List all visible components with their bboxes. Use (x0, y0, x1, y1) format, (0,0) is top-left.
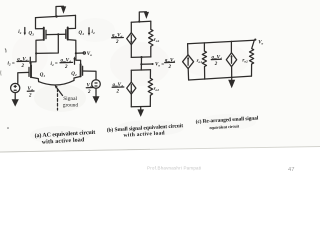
transistor Q3 (36, 18, 44, 29)
svg-text:Vo: Vo (87, 52, 92, 57)
current label i4 down-arrow right of Q4 (88, 28, 90, 34)
svg-text:i4 =: i4 = (51, 62, 58, 67)
caption (a) (34, 129, 95, 146)
node output junction (75, 52, 77, 54)
wire bottom loop top rail (131, 69, 150, 71)
svg-text:ro4: ro4 (154, 38, 160, 43)
ground (top) (139, 12, 146, 22)
transistor Q1 (31, 53, 36, 66)
caption (c) (195, 114, 259, 131)
node drain-gate tie (35, 52, 37, 54)
ground (bottom) (140, 107, 142, 110)
source Vd/2 (right) (92, 80, 101, 89)
scan page tint (0, 0, 320, 152)
wire diode-connect feedback (36, 34, 58, 53)
svg-text:i4: i4 (18, 30, 21, 35)
transistor Q2 (76, 53, 81, 65)
ground (signal ground arrow at top) (56, 6, 64, 16)
node Vo (140, 63, 142, 65)
dependent source gmVd/2 (third branch) (230, 41, 232, 52)
svg-text:ro4: ro4 (197, 59, 203, 64)
wire output tap (76, 52, 83, 54)
svg-text:2: 2 (115, 40, 119, 45)
wire mid rail (top loop bottom) (131, 56, 151, 59)
svg-text:i4: i4 (92, 30, 95, 35)
svg-text:Q1: Q1 (40, 73, 46, 78)
transistor Q4 (68, 15, 76, 28)
resistor ro4 (149, 21, 153, 57)
svg-text:Q4: Q4 (79, 31, 85, 36)
value label gmVd/2 (bottom source) (112, 83, 124, 95)
ground (right source) (95, 88, 97, 96)
node gate junction (57, 33, 59, 35)
caption (b) (107, 122, 184, 140)
svg-text:Vo =: Vo = (155, 63, 164, 68)
svg-text:2: 2 (28, 94, 32, 99)
wire bottom rail (131, 105, 150, 107)
wire top rail (131, 21, 151, 22)
resistor ro2 (148, 70, 152, 107)
svg-text:ro2: ro2 (242, 59, 248, 64)
resistor ro2 (250, 40, 255, 76)
svg-text:2: 2 (64, 65, 68, 70)
svg-text:ground: ground (63, 102, 79, 108)
svg-text:Vo: Vo (258, 40, 263, 45)
svg-text:ro2: ro2 (154, 87, 160, 92)
value label gmVd/2 (211, 55, 222, 67)
svg-text:Q2: Q2 (71, 72, 77, 77)
node top rail junction (55, 15, 57, 17)
value label gmVd/2 (top source) (111, 34, 123, 46)
svg-text:Signal: Signal (63, 96, 77, 102)
dependent source gmVd/2 (left branch) (187, 44, 189, 55)
node Vo (254, 39, 256, 41)
wire gate rail Q3-Q4 (46, 33, 66, 35)
source Vd/2 (left) (11, 83, 20, 92)
dependent source gmVd/2 (top) (130, 22, 132, 32)
resistor ro4 (202, 43, 206, 79)
svg-text:Prof.Bhavnashri Pampati: Prof.Bhavnashri Pampati (147, 166, 201, 171)
scan bottom edge (0, 147, 320, 153)
current label i = gmVd/2 (right) (51, 56, 76, 70)
svg-text:2: 2 (87, 90, 91, 95)
svg-text:i2 =: i2 = (8, 62, 15, 67)
value label gmVd/2 (equation) (164, 58, 175, 70)
dependent source gmVd/2 (bottom) (130, 70, 132, 82)
svg-text:2: 2 (214, 62, 218, 67)
svg-text:2: 2 (116, 90, 120, 95)
node Vo terminal (83, 52, 85, 54)
ground (left source) (14, 93, 16, 100)
svg-text:2: 2 (21, 64, 25, 69)
svg-text:47: 47 (288, 167, 294, 173)
svg-text:Q3: Q3 (29, 32, 35, 37)
ground (231, 77, 233, 80)
wire bottom rail (189, 76, 252, 80)
node signal ground pointer (57, 88, 63, 96)
current label i = gmVd/2 (left) (8, 57, 32, 69)
wire mid link (140, 57, 142, 70)
wire top rail (188, 40, 255, 44)
svg-text:2: 2 (168, 65, 172, 70)
wire common-source arc (39, 80, 74, 85)
wire top rail (36, 15, 76, 17)
stray scan marks (5, 49, 6, 53)
